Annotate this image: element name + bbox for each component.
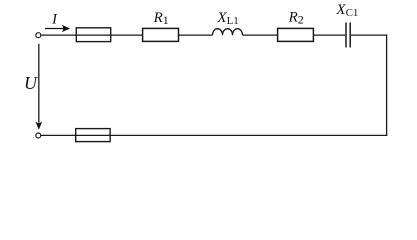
svg-text:R2: R2 <box>288 10 304 27</box>
wire top: terminal to R1 (through fuse FU1) <box>41 34 143 36</box>
wire bottom: right corner to terminal (through fuse FU2) <box>41 134 387 136</box>
resistor R1 <box>143 28 179 41</box>
capacitor XC1 <box>346 23 350 48</box>
terminal (bottom input) <box>36 133 41 138</box>
terminal (top input) <box>36 33 41 38</box>
voltage arrow U <box>35 44 42 130</box>
wire: L1 to R2 <box>243 34 278 36</box>
fuse FU2 <box>76 129 110 142</box>
current arrow I <box>45 25 70 33</box>
svg-text:I: I <box>51 11 58 27</box>
resistor R2 <box>278 28 314 41</box>
wire: right vertical <box>386 35 388 137</box>
wire: R2 to C1 <box>313 34 345 36</box>
svg-text:U: U <box>24 73 38 93</box>
svg-text:XC1: XC1 <box>335 2 358 19</box>
wire: C1 to right corner <box>351 34 387 36</box>
svg-text:XL1: XL1 <box>216 10 238 27</box>
wire: R1 to L1 <box>179 34 213 36</box>
inductor XL1 <box>213 29 243 35</box>
svg-text:R1: R1 <box>153 10 169 27</box>
fuse FU1 <box>76 28 110 42</box>
